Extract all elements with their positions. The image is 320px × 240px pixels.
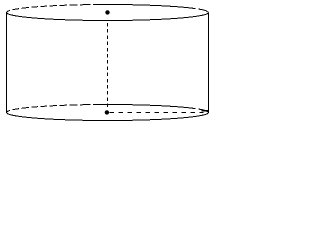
top ellipse back arc (dashed hidden edge) xyxy=(7,5,209,13)
dashed axis of cylinder xyxy=(107,23,109,109)
arrowhead blob at right end of radius xyxy=(202,110,209,112)
bottom ellipse back arc (dashed hidden edge) xyxy=(7,105,209,113)
top center point xyxy=(105,10,109,14)
cylinder left side edge xyxy=(6,13,8,113)
dashed radius line from bottom center to right rim xyxy=(110,112,204,114)
cylinder right side edge xyxy=(208,13,210,113)
bottom ellipse front arc (solid rim) xyxy=(7,113,209,121)
bottom center point xyxy=(105,110,109,114)
top ellipse front arc (solid rim) xyxy=(7,13,209,21)
